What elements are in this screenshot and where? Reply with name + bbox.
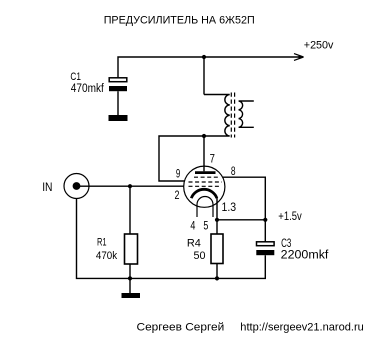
svg-text:1.3: 1.3 [222,200,237,214]
svg-text:50: 50 [194,250,206,262]
svg-text:5: 5 [203,219,208,233]
svg-text:9: 9 [176,167,181,181]
svg-text:8: 8 [231,164,236,178]
svg-text:7: 7 [210,151,216,165]
svg-text:R4: R4 [187,238,201,250]
svg-text:2200mkf: 2200mkf [281,250,330,262]
svg-text:IN: IN [42,182,52,194]
svg-text:2: 2 [175,188,180,202]
svg-text:http://sergeev21.narod.ru: http://sergeev21.narod.ru [240,322,363,334]
svg-text:470mkf: 470mkf [71,83,105,95]
svg-text:R1: R1 [97,236,107,248]
svg-text:Сергеев Сергей: Сергеев Сергей [137,321,225,333]
svg-text:C1: C1 [70,71,81,83]
svg-text:+250v: +250v [304,39,334,51]
svg-text:470k: 470k [96,250,118,262]
svg-text:4: 4 [190,219,195,233]
svg-text:C3: C3 [281,238,291,250]
svg-text:+1.5v: +1.5v [278,211,302,223]
svg-text:ПРЕДУСИЛИТЕЛЬ НА 6Ж52П: ПРЕДУСИЛИТЕЛЬ НА 6Ж52П [104,14,255,26]
